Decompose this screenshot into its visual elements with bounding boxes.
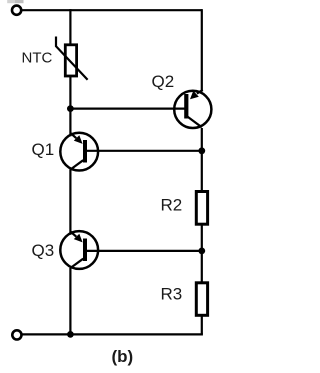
node Q1-base/R2 junction: [198, 147, 205, 154]
terminal top-left: [12, 6, 21, 15]
terminal bottom-left: [12, 330, 21, 339]
wire column Q1 to Q3: [69, 169, 71, 235]
svg-text:Q2: Q2: [152, 72, 175, 91]
svg-text:(b): (b): [112, 347, 134, 366]
wire R2 to R3: [201, 225, 203, 284]
transistor Q3: [60, 231, 98, 269]
wire Q2 collector to R2: [201, 128, 203, 193]
wire NTC column lower to Q1: [69, 77, 71, 137]
transistor Q2: [174, 90, 211, 128]
svg-text:R3: R3: [161, 285, 183, 304]
wire Q1 base: [86, 150, 202, 152]
svg-text:Q3: Q3: [32, 241, 55, 260]
wire right rail upper (top corner to Q2 emitter): [201, 9, 203, 91]
NTC diagonal stroke: [56, 37, 88, 80]
NTC thermistor body: [65, 45, 76, 76]
wire bottom rail: [21, 333, 203, 335]
wire Q2 base: [70, 107, 185, 109]
node NTC/Q2-base junction: [67, 105, 74, 112]
svg-text:R2: R2: [161, 196, 183, 215]
resistor R2: [196, 192, 207, 225]
wire column Q3 to bottom rail: [69, 268, 71, 335]
wire top rail: [21, 9, 202, 11]
wire NTC column upper: [69, 9, 71, 44]
node Q3-base/R3 junction: [198, 248, 205, 255]
svg-text:Q1: Q1: [32, 140, 55, 159]
wire R3 to bottom rail: [201, 316, 203, 335]
node column/bottom-rail junction: [67, 331, 74, 338]
wire Q3 base: [86, 250, 202, 252]
resistor R3: [196, 283, 207, 316]
svg-text:NTC: NTC: [22, 50, 53, 67]
transistor Q1: [60, 133, 98, 171]
